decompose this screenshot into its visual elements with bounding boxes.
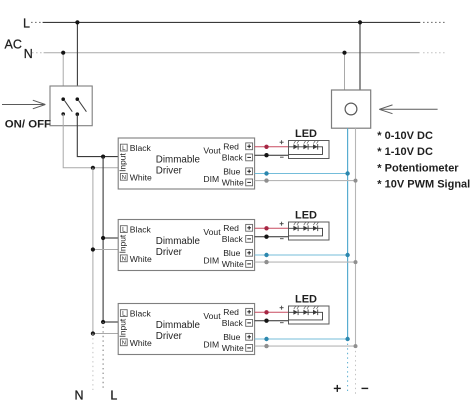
svg-text:L: L — [122, 145, 126, 152]
label N at bottom — [75, 388, 84, 402]
driver U3 label Input (vertical) — [118, 318, 128, 337]
LED module LED3 box — [289, 306, 330, 324]
driver U3 label DIM — [203, 339, 219, 349]
wire U2 DIM- white to bus — [255, 261, 356, 263]
svg-text:Blue: Blue — [223, 332, 240, 342]
LED D12 — [303, 140, 309, 149]
svg-text:Vout: Vout — [203, 311, 221, 321]
svg-text:Dimmable: Dimmable — [156, 154, 201, 165]
wire U2 DIM+ blue to bus — [255, 254, 348, 256]
wire U3 DIM- white to bus — [255, 345, 356, 347]
junction U1 blue wire / DIM+ bus — [345, 171, 349, 175]
LED D21 — [293, 222, 299, 231]
driver U3 terminal Vout+ — [246, 308, 253, 315]
junction L bus / switch drop — [75, 20, 79, 24]
driver U3 label Red — [223, 307, 239, 317]
svg-text:Black: Black — [222, 153, 244, 163]
driver U3 label Dimmable Driver — [156, 320, 201, 342]
LED D32 — [303, 306, 309, 315]
junction N tap driver 2 — [91, 247, 95, 251]
svg-text:L: L — [122, 226, 126, 233]
node U2 black wire connector — [264, 235, 268, 239]
node U1 white wire connector — [264, 178, 268, 182]
driver U1 label White (input) — [130, 172, 152, 182]
LED module LED3 label — [295, 294, 317, 306]
svg-text:LED: LED — [295, 210, 317, 222]
LED D11 — [293, 140, 299, 149]
wire U1 DIM+ blue to bus — [255, 173, 348, 175]
svg-text:Black: Black — [222, 318, 244, 328]
switch S1 pole 1 contacts — [61, 97, 65, 115]
driver U3 label White (output) — [222, 343, 244, 353]
dimmer VR1 box — [332, 90, 371, 128]
LED module LED2 polarity marks + / - — [280, 222, 284, 239]
svg-text:L: L — [23, 17, 30, 31]
wire U3 Vout+ red to LED — [255, 311, 289, 313]
node U3 red wire connector — [264, 310, 268, 314]
svg-text:* 10V PWM Signal: * 10V PWM Signal — [377, 179, 470, 191]
wire N tap to driver 3 — [93, 333, 118, 335]
label N (AC neutral) — [24, 47, 33, 61]
junction U3 blue wire / DIM+ bus — [345, 337, 349, 341]
driver U1 terminal DIM- — [246, 179, 253, 186]
svg-text:Driver: Driver — [156, 247, 183, 258]
driver U2 label White (input) — [130, 254, 152, 264]
wire N tap to driver 2 — [93, 249, 118, 251]
node U1 red wire connector — [264, 145, 268, 149]
arrow pointing at dimmer — [379, 105, 437, 114]
junction L bus / dimmer drop — [358, 20, 362, 24]
arrow pointing at switch — [2, 100, 45, 109]
svg-text:Black: Black — [130, 309, 152, 319]
svg-text:Black: Black — [130, 143, 152, 153]
driver U2 box (Dimmable Driver) — [118, 220, 254, 271]
wire N dashed lead-in — [32, 52, 43, 54]
svg-text:AC: AC — [5, 38, 22, 52]
driver U3 terminal box L — [120, 310, 127, 318]
svg-text:Black: Black — [130, 225, 152, 235]
dimmer VR1 knob circle — [345, 103, 357, 115]
label L (AC live) — [23, 17, 30, 31]
svg-text:N: N — [75, 388, 84, 402]
node U2 blue wire connector — [264, 253, 268, 257]
svg-text:Red: Red — [223, 141, 239, 151]
LED module LED1 internal series wire — [289, 147, 323, 155]
svg-text:Blue: Blue — [223, 166, 240, 176]
driver U3 label Vout — [203, 311, 221, 321]
junction N feeder tap driver 1 — [91, 166, 95, 170]
svg-text:DIM: DIM — [203, 174, 219, 184]
wire N from switch to drivers — [63, 114, 118, 168]
svg-text:N: N — [122, 257, 126, 263]
wire N feeder dashed continuation down — [92, 334, 94, 391]
junction U1 white wire / DIM- bus — [354, 179, 358, 183]
driver U1 label Black (input) — [130, 143, 152, 153]
driver U2 label Blue — [223, 248, 240, 258]
svg-text:Blue: Blue — [223, 248, 240, 258]
wire L feeder dashed continuation down — [102, 322, 104, 390]
junction L tap driver 2 — [101, 236, 105, 240]
driver U2 terminal Vout+ — [246, 224, 253, 231]
driver U1 box (Dimmable Driver) — [118, 138, 254, 189]
junction L feeder tap driver 1 — [101, 155, 105, 159]
svg-text:Input: Input — [118, 318, 128, 337]
svg-text:DIM: DIM — [203, 339, 219, 349]
wire U2 Vout- black from LED — [255, 236, 289, 238]
wire U1 DIM- white to bus — [255, 180, 356, 182]
LED module LED3 internal series wire — [289, 312, 323, 320]
wire DIM- vertical bus (gray) — [355, 128, 357, 346]
junction N bus / dimmer drop — [342, 51, 346, 55]
svg-text:N: N — [24, 47, 33, 61]
driver U1 label Blue — [223, 166, 240, 176]
junction U2 blue wire / DIM+ bus — [345, 253, 349, 257]
wire L dashed continuation right — [423, 21, 447, 23]
LED D33 — [313, 306, 319, 315]
junction U2 white wire / DIM- bus — [354, 260, 358, 264]
LED module LED1 box — [289, 141, 330, 159]
wire N top bus — [44, 52, 420, 54]
driver U2 label Dimmable Driver — [156, 236, 201, 258]
driver U3 terminal box N — [120, 339, 127, 347]
driver U2 terminal Vout- — [246, 236, 253, 243]
driver U1 terminal box N — [120, 173, 127, 181]
svg-text:White: White — [130, 338, 152, 348]
wire N drop to switch — [62, 53, 64, 99]
switch S1 (double-pole ON/OFF) box — [50, 86, 92, 126]
annotation list: dimming signal types — [377, 130, 470, 191]
wire L from switch to drivers — [77, 114, 118, 156]
driver U2 label Black (output) — [222, 234, 244, 244]
wire U3 Vout- black from LED — [255, 320, 289, 322]
switch S1 pole 2 contacts — [76, 97, 80, 116]
driver U1 label Vout — [203, 146, 221, 156]
wire U1 Vout+ red to LED — [255, 146, 289, 148]
svg-text:LED: LED — [295, 128, 317, 140]
svg-text:N: N — [122, 175, 126, 181]
svg-text:DIM: DIM — [203, 255, 219, 265]
svg-text:Dimmable: Dimmable — [156, 320, 201, 331]
svg-text:Vout: Vout — [203, 146, 221, 156]
driver U3 label Blue — [223, 332, 240, 342]
LED module LED3 polarity marks + / - — [280, 306, 284, 323]
svg-text:Dimmable: Dimmable — [156, 236, 201, 247]
svg-text:Input: Input — [118, 153, 128, 172]
driver U2 label Input (vertical) — [118, 234, 128, 253]
wire DIM+ dashed continuation down — [347, 339, 349, 394]
LED module LED2 box — [289, 222, 330, 240]
driver U3 label Black (output) — [222, 318, 244, 328]
node U3 white wire connector — [264, 344, 268, 348]
wire U1 Vout- black from LED — [255, 154, 289, 156]
wire L top bus — [43, 21, 421, 23]
svg-text:Red: Red — [223, 223, 239, 233]
wire L dashed lead-in — [31, 21, 42, 23]
wire L tap to driver 3 — [103, 321, 118, 323]
svg-text:Black: Black — [222, 234, 244, 244]
driver U1 terminal box L — [120, 144, 127, 152]
node U1 black wire connector — [264, 153, 268, 157]
svg-text:Vout: Vout — [203, 227, 221, 237]
node U1 blue wire connector — [264, 171, 268, 175]
wire N vertical feeder — [92, 168, 94, 334]
svg-text:White: White — [130, 254, 152, 264]
wire N drop to dimmer — [344, 53, 346, 90]
driver U1 terminal Vout+ — [246, 143, 253, 150]
label ON/ OFF — [5, 119, 51, 131]
driver U2 terminal DIM+ — [246, 249, 253, 256]
svg-text:LED: LED — [295, 294, 317, 306]
wire U2 Vout+ red to LED — [255, 227, 289, 229]
driver U2 label Vout — [203, 227, 221, 237]
label + at bottom — [334, 385, 341, 392]
wire L vertical feeder — [102, 157, 104, 322]
LED D22 — [303, 222, 309, 231]
node U3 blue wire connector — [264, 337, 268, 341]
driver U2 label Black (input) — [130, 225, 152, 235]
junction L tap driver 3 — [101, 320, 105, 324]
wire L drop to switch — [76, 22, 78, 99]
driver U2 label Red — [223, 223, 239, 233]
wire L tap to driver 2 — [103, 237, 118, 239]
wire N dashed continuation right — [423, 52, 446, 54]
driver U2 terminal DIM- — [246, 261, 253, 268]
junction N bus / switch drop — [61, 51, 65, 55]
svg-text:N: N — [122, 341, 126, 347]
driver U3 label White (input) — [130, 338, 152, 348]
driver U2 label DIM — [203, 255, 219, 265]
junction U3 white wire / DIM- bus — [354, 344, 358, 348]
wire DIM+ vertical bus (blue) — [347, 128, 349, 339]
LED D31 — [293, 306, 299, 315]
driver U1 label Dimmable Driver — [156, 154, 201, 176]
svg-text:Red: Red — [223, 307, 239, 317]
switch S1 pole 2 blade — [79, 101, 87, 112]
svg-text:Driver: Driver — [156, 331, 183, 342]
label - at bottom — [362, 387, 369, 389]
driver U2 label White (output) — [222, 259, 244, 269]
svg-text:* 0-10V DC: * 0-10V DC — [377, 130, 433, 142]
label AC — [5, 38, 22, 52]
svg-text:L: L — [110, 388, 117, 402]
LED module LED2 internal series wire — [289, 228, 323, 236]
driver U3 terminal DIM+ — [246, 333, 253, 340]
driver U2 terminal box L — [120, 226, 127, 234]
junction N tap driver 3 — [91, 331, 95, 335]
LED module LED1 label — [295, 128, 317, 140]
node U3 black wire connector — [264, 319, 268, 323]
driver U1 label Input (vertical) — [118, 153, 128, 172]
svg-text:Driver: Driver — [156, 165, 183, 176]
LED D23 — [313, 222, 319, 231]
driver U1 label Red — [223, 141, 239, 151]
svg-text:White: White — [222, 343, 244, 353]
driver U1 terminal DIM+ — [246, 168, 253, 175]
driver U1 label White (output) — [222, 178, 244, 188]
driver U3 box (Dimmable Driver) — [118, 304, 254, 355]
driver U3 terminal Vout- — [246, 320, 253, 327]
node U2 white wire connector — [264, 260, 268, 264]
driver U1 label DIM — [203, 174, 219, 184]
switch S1 pole 1 blade — [65, 101, 73, 112]
svg-text:* 1-10V DC: * 1-10V DC — [377, 146, 433, 158]
svg-text:L: L — [122, 310, 126, 317]
wire L drop to dimmer — [359, 22, 361, 90]
driver U1 label Black (output) — [222, 153, 244, 163]
wire U3 DIM+ blue to bus — [255, 338, 348, 340]
driver U1 terminal Vout- — [246, 154, 253, 161]
LED module LED1 polarity marks + / - — [280, 140, 284, 157]
svg-text:White: White — [222, 178, 244, 188]
node U2 red wire connector — [264, 226, 268, 230]
label L at bottom — [110, 388, 117, 402]
svg-text:Input: Input — [118, 234, 128, 253]
driver U3 label Black (input) — [130, 309, 152, 319]
LED D13 — [313, 140, 319, 149]
svg-text:* Potentiometer: * Potentiometer — [377, 162, 459, 174]
wire DIM- dashed continuation down — [355, 346, 357, 394]
svg-text:White: White — [222, 259, 244, 269]
driver U2 terminal box N — [120, 255, 127, 263]
driver U3 terminal DIM- — [246, 345, 253, 352]
svg-text:ON/ OFF: ON/ OFF — [5, 119, 51, 131]
svg-text:White: White — [130, 172, 152, 182]
LED module LED2 label — [295, 210, 317, 222]
